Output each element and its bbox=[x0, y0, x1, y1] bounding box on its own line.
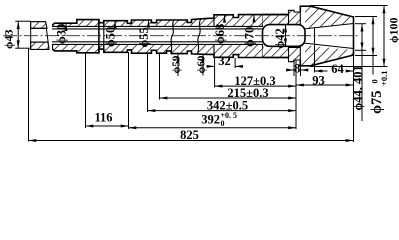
svg-text:392: 392 bbox=[201, 113, 220, 127]
svg-text:+0.1: +0.1 bbox=[379, 71, 389, 86]
svg-text:825: 825 bbox=[180, 128, 199, 142]
svg-text:93: 93 bbox=[312, 73, 325, 87]
svg-text:ϕ42: ϕ42 bbox=[273, 28, 287, 48]
svg-text:ϕ59: ϕ59 bbox=[171, 55, 183, 73]
svg-text:0: 0 bbox=[370, 79, 380, 83]
svg-text:32: 32 bbox=[218, 54, 231, 68]
svg-text:ϕ43: ϕ43 bbox=[2, 30, 16, 50]
svg-text:ϕ30: ϕ30 bbox=[55, 24, 69, 44]
svg-text:ϕ70: ϕ70 bbox=[243, 27, 257, 47]
svg-text:ϕ55: ϕ55 bbox=[137, 27, 151, 47]
svg-text:64: 64 bbox=[331, 62, 344, 76]
svg-text:116: 116 bbox=[94, 111, 112, 125]
svg-text:ϕ75: ϕ75 bbox=[369, 90, 385, 114]
svg-text:8: 8 bbox=[294, 62, 300, 76]
svg-text:ϕ68: ϕ68 bbox=[213, 24, 227, 44]
svg-text:ϕ60: ϕ60 bbox=[196, 55, 208, 73]
svg-text:ϕ44. 401: ϕ44. 401 bbox=[351, 65, 365, 110]
svg-text:0: 0 bbox=[221, 119, 225, 128]
svg-text:ϕ100: ϕ100 bbox=[387, 18, 399, 44]
svg-text:ϕ50: ϕ50 bbox=[104, 27, 118, 47]
